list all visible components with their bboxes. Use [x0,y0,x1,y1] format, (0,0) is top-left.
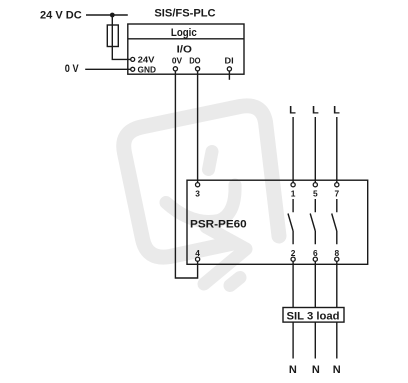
terminal 4 [196,257,200,261]
fuse F1 [107,25,118,47]
svg-text:7: 7 [334,189,339,199]
watermark glyph arrowhead [204,227,246,284]
svg-text:3: 3 [195,189,200,199]
watermark glyph tail [230,278,240,286]
watermark logo [124,106,279,286]
terminal 5 [313,183,317,187]
PLC box [128,24,244,74]
wire 0V feed [85,68,130,70]
svg-text:N: N [312,364,320,376]
wire L1 [292,117,294,183]
wire load 2 [314,261,316,358]
svg-text:5: 5 [313,189,318,199]
svg-text:SIS/FS-PLC: SIS/FS-PLC [154,8,215,20]
wire DO to PSR terminal 3 [197,71,199,183]
svg-text:4: 4 [195,248,200,258]
svg-text:0V: 0V [172,56,183,66]
terminal 8 [335,257,339,261]
svg-text:N: N [333,364,341,376]
terminal DO [196,67,200,71]
terminal 3 [196,183,200,187]
watermark rounded square (open at bottom-right corner) [124,106,279,257]
svg-text:24V: 24V [138,54,155,64]
watermark glyph stroke A [209,152,213,170]
svg-text:1: 1 [291,189,296,199]
svg-text:L: L [289,104,296,116]
svg-text:PSR-PE60: PSR-PE60 [190,218,247,230]
contact K1 (terminals 1-2) [288,199,293,244]
watermark glyph socket curve [166,185,235,222]
PSR-PE60 box [187,180,368,264]
terminal 0V [173,67,177,71]
wire 0V to PSR terminal 4 [175,71,197,278]
terminal 24V [131,57,135,61]
wire L3 [336,117,338,183]
terminal GND [131,67,135,71]
svg-text:L: L [333,104,340,116]
svg-text:DI: DI [225,56,234,66]
svg-text:DO: DO [189,56,201,66]
svg-text:N: N [289,364,297,376]
svg-text:0 V: 0 V [65,63,79,75]
svg-text:L: L [312,104,319,116]
wire L2 [314,117,316,183]
contact K2 (terminals 5-6) [310,199,315,244]
svg-text:I/O: I/O [177,44,192,55]
svg-text:2: 2 [291,248,296,258]
terminal 7 [335,183,339,187]
Logic divider [128,38,244,40]
svg-text:Logic: Logic [171,27,197,39]
svg-text:GND: GND [138,64,157,74]
svg-text:24 V DC: 24 V DC [40,10,82,22]
junction dot [110,13,115,18]
terminal 6 [313,257,317,261]
terminal DI [227,67,231,71]
terminal 1 [291,183,295,187]
wire load 3 [336,261,338,358]
SIL 3 load box [283,308,344,323]
wire load 1 [292,261,294,358]
terminal 2 [291,257,295,261]
svg-text:8: 8 [334,248,339,258]
contact K3 (terminals 7-8) [332,199,337,244]
wire fuse drop [112,15,130,59]
wire DI stub [228,71,230,80]
svg-text:6: 6 [313,248,318,258]
wire 24VDC feed [86,14,128,16]
svg-text:SIL 3 load: SIL 3 load [287,310,340,322]
